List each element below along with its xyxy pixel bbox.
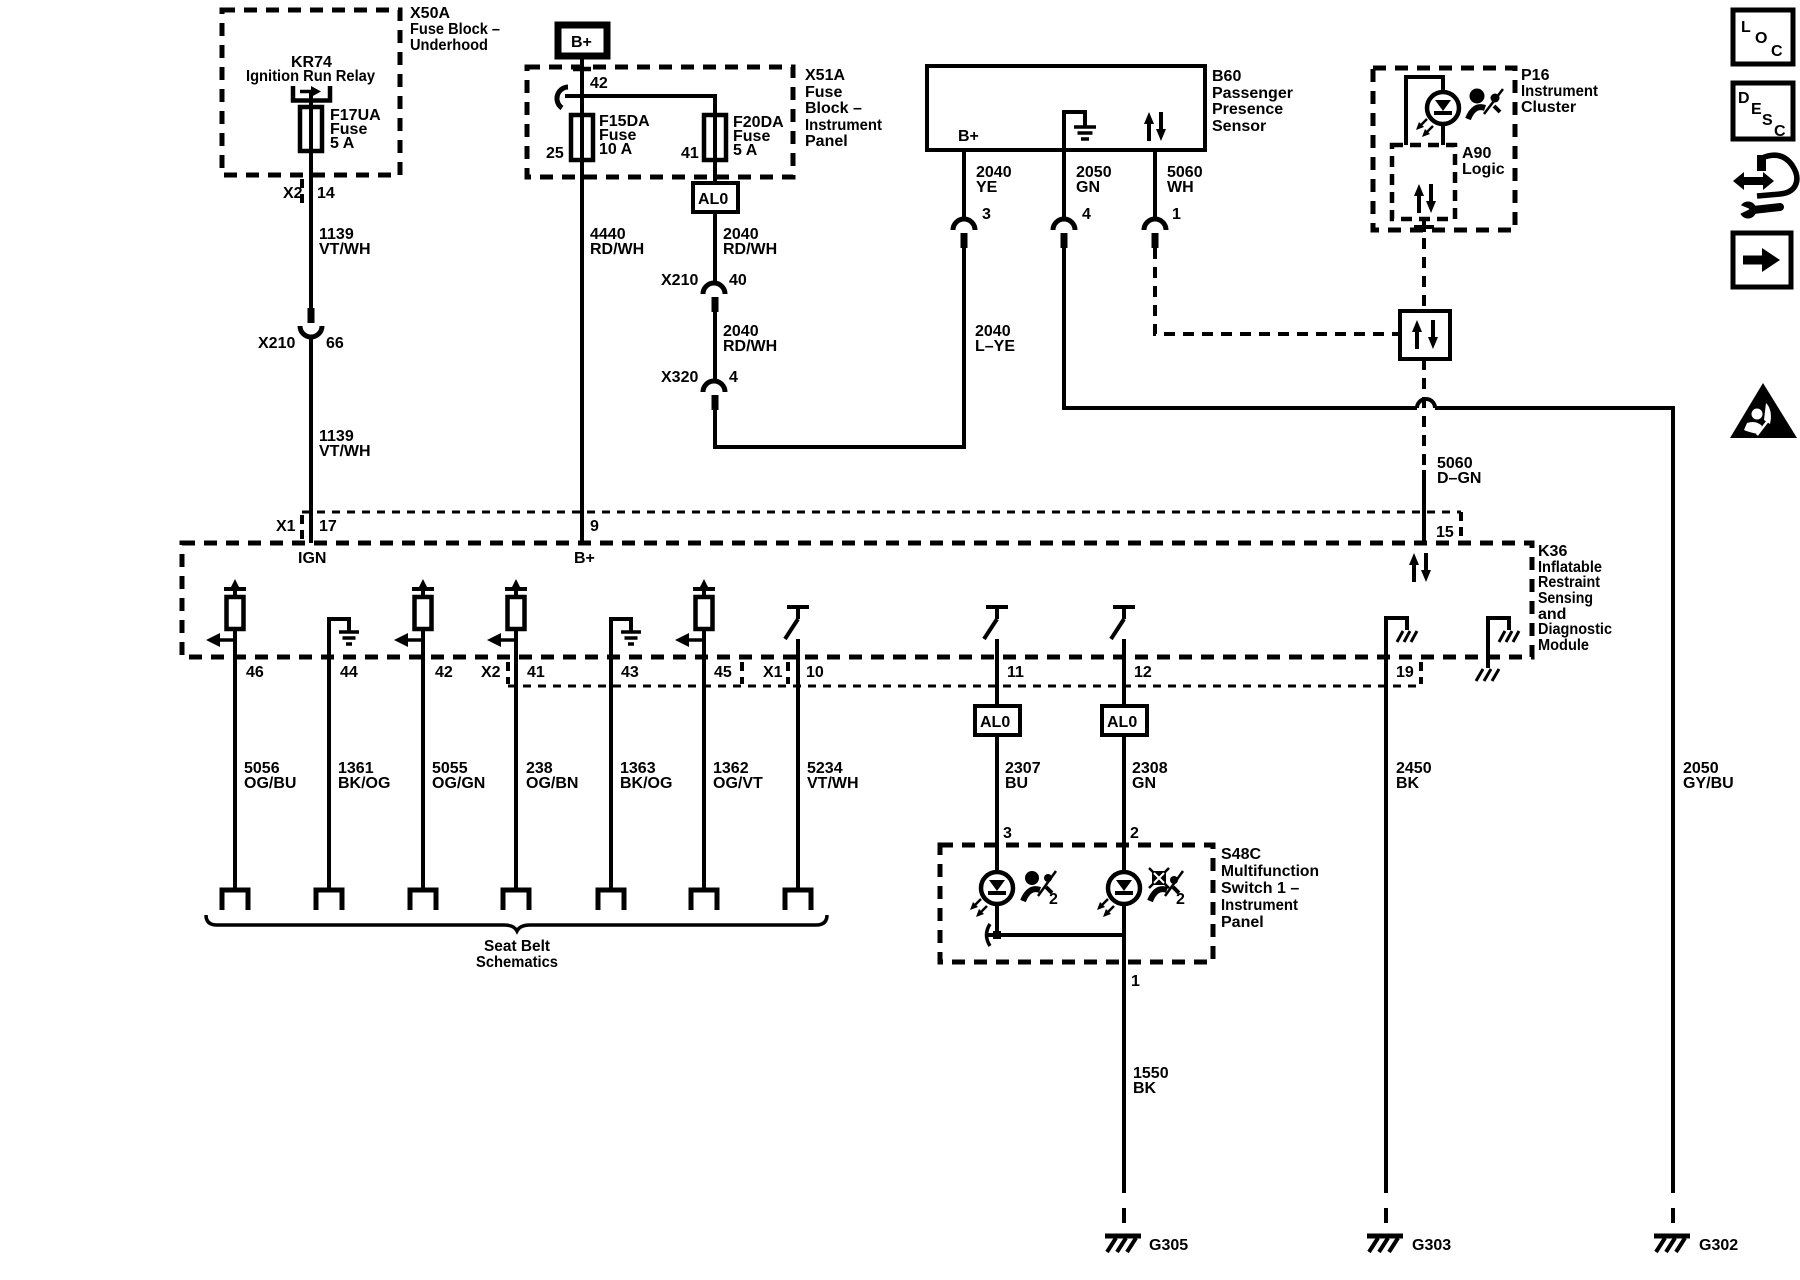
svg-text:3: 3	[982, 206, 991, 223]
label 2308 GN	[1132, 760, 1168, 792]
connector X1 top dashed line	[302, 511, 1461, 514]
svg-text:Sensing: Sensing	[1538, 590, 1593, 607]
label F15DA Fuse 10 A	[599, 113, 650, 158]
label pin 2 S48C	[1130, 825, 1139, 842]
label X1 17 top	[276, 518, 337, 535]
label F20DA Fuse 5 A	[733, 114, 784, 159]
svg-text:10: 10	[806, 664, 824, 681]
svg-text:Switch 1 –: Switch 1 –	[1221, 880, 1299, 897]
label B+ internal	[958, 128, 979, 145]
wire F20DA to AL0	[713, 160, 717, 183]
svg-text:12: 12	[1134, 664, 1152, 681]
wire 2307 BU	[995, 735, 999, 872]
splice AL0 wire 2308	[1102, 706, 1147, 735]
label 1362 OG/VT	[713, 760, 763, 792]
label wire 1139 VT/WH lower	[319, 428, 371, 460]
svg-text:BK/OG: BK/OG	[620, 775, 672, 792]
svg-text:X50A: X50A	[410, 5, 450, 22]
fuse F17UA	[300, 107, 322, 151]
svg-text:P16: P16	[1521, 67, 1550, 84]
pin stub below A90	[1414, 219, 1434, 232]
svg-text:G302: G302	[1699, 1237, 1738, 1254]
label B60 Passenger Presence Sensor	[1212, 68, 1293, 135]
svg-text:K36: K36	[1538, 543, 1567, 560]
wire 5055 OG/GN	[421, 657, 425, 888]
svg-text:IGN: IGN	[298, 550, 326, 567]
ground G302	[1654, 1236, 1690, 1252]
svg-text:D–GN: D–GN	[1437, 470, 1481, 487]
switch output K36 pin 10	[785, 607, 809, 657]
svg-text:Sensor: Sensor	[1212, 118, 1266, 135]
svg-text:4: 4	[729, 369, 738, 386]
logic module A90 box	[1392, 145, 1455, 219]
label pin 1	[1172, 206, 1181, 223]
switch common bus S48C	[987, 924, 1125, 946]
wire X320 to B60 pin 3	[715, 246, 964, 447]
wire pin42 down to F15DA	[580, 96, 584, 115]
label S48C Multifunction Switch 1 - Instrument Panel	[1221, 846, 1319, 931]
svg-text:GN: GN	[1132, 775, 1156, 792]
svg-text:OG/BU: OG/BU	[244, 775, 296, 792]
svg-text:17: 17	[319, 518, 337, 535]
terminator pin 46 wire	[222, 890, 248, 910]
icon LOC box	[1733, 10, 1793, 64]
svg-text:11: 11	[1007, 664, 1024, 681]
fuse F20DA	[704, 115, 726, 160]
svg-text:10 A: 10 A	[599, 141, 633, 158]
svg-text:41: 41	[527, 664, 545, 681]
fuse block X50A box	[222, 10, 400, 175]
label 2050 GY/BU	[1683, 760, 1734, 792]
svg-text:RD/WH: RD/WH	[590, 241, 644, 258]
svg-text:B+: B+	[958, 128, 979, 145]
svg-text:A90: A90	[1462, 145, 1491, 162]
label X210 40	[661, 272, 747, 289]
label B+ pin9	[574, 550, 595, 567]
ground output K36 pin 44	[329, 619, 359, 657]
svg-text:Panel: Panel	[1221, 914, 1264, 931]
wire 5056 OG/BU	[233, 657, 237, 888]
svg-text:X1: X1	[276, 518, 296, 535]
label pin row 46 44 42	[246, 664, 453, 681]
driver output K36 pin 41	[487, 579, 527, 657]
svg-text:9: 9	[590, 518, 599, 535]
ground G303	[1367, 1236, 1403, 1252]
sensor B60 box	[927, 66, 1205, 150]
svg-text:5 A: 5 A	[330, 135, 355, 152]
fuse block X51A box	[527, 67, 793, 177]
svg-text:3: 3	[1003, 825, 1012, 842]
label X1 10 11 12	[763, 664, 1152, 681]
connector X1 bottom tick mid	[740, 662, 744, 684]
label X320 4	[661, 369, 738, 386]
svg-text:Fuse: Fuse	[805, 84, 842, 101]
wire B60 pin 3 stub	[962, 150, 966, 219]
connector X2 bottom tick	[506, 662, 510, 684]
label F17UA Fuse 5 A	[330, 107, 381, 152]
svg-text:14: 14	[317, 185, 335, 202]
wire B60 pin 4 stub	[1062, 150, 1066, 219]
wire dashed A90 to serial data box	[1422, 238, 1426, 311]
connector X1 bottom tick at 10	[786, 662, 790, 684]
label 5060 WH	[1167, 164, 1203, 196]
label 1361 BK/OG	[338, 760, 390, 792]
connector B60 pin 3	[953, 219, 975, 248]
svg-text:42: 42	[435, 664, 453, 681]
svg-text:B+: B+	[574, 550, 595, 567]
wire 5234 VT/WH	[796, 657, 800, 888]
wire B60 pin 1 stub	[1153, 150, 1157, 219]
connector X210 pin 66	[300, 308, 322, 337]
label 2307 BU	[1005, 760, 1041, 792]
indicator LED S48C right	[1097, 872, 1140, 917]
label 5060 D-GN	[1437, 455, 1481, 487]
wire KR74 fuse output	[309, 151, 313, 308]
power feed B+ box	[558, 25, 607, 56]
label pin 42	[590, 75, 608, 92]
svg-text:X210: X210	[661, 272, 698, 289]
label 2040 YE	[976, 164, 1012, 196]
wire 238 OG/BN	[514, 657, 518, 888]
label Seat Belt Schematics	[476, 938, 558, 971]
icon child seat warning triangle	[1730, 383, 1797, 438]
instrument cluster P16 box	[1373, 68, 1515, 230]
terminator pin 44 wire	[316, 890, 342, 910]
label X50A Fuse Block - Underhood	[410, 5, 500, 54]
connector X2 pin 14 tick	[300, 179, 304, 205]
switch S48C box	[940, 845, 1213, 962]
terminator pin 42 wire	[410, 890, 436, 910]
wire 5060 to K36 pin 15	[1422, 470, 1426, 543]
label pin 9	[590, 518, 599, 535]
svg-text:2: 2	[1176, 891, 1185, 908]
svg-text:BK/OG: BK/OG	[338, 775, 390, 792]
svg-text:5 A: 5 A	[733, 142, 758, 159]
icon forward arrow box	[1733, 233, 1791, 287]
label wire 2040 L-YE	[975, 323, 1015, 355]
svg-text:X2: X2	[283, 185, 303, 202]
svg-text:45: 45	[714, 664, 732, 681]
label X210 66	[258, 335, 344, 352]
splice AL0 wire 2307	[975, 706, 1020, 735]
svg-text:Underhood: Underhood	[410, 37, 488, 54]
connector X320 pin 4	[703, 381, 725, 410]
label X51A Fuse Block - Instrument Panel	[805, 67, 883, 150]
svg-text:25: 25	[546, 145, 564, 162]
svg-text:L–YE: L–YE	[975, 338, 1015, 355]
wire 1361 BK/OG	[327, 657, 331, 888]
label A90 Logic	[1462, 145, 1505, 178]
wire 5060 WH dashed from pin 1	[1155, 248, 1400, 334]
label wire 2040 RD/WH upper	[723, 226, 777, 258]
wire hop over serial data	[1417, 399, 1435, 408]
label pin 3	[982, 206, 991, 223]
splice AL0	[693, 183, 738, 212]
svg-text:19: 19	[1396, 664, 1414, 681]
driver output K36 pin 46	[206, 579, 246, 657]
svg-text:1: 1	[1131, 973, 1140, 990]
terminator pin 10 wire	[785, 890, 811, 910]
wire K36 pin 12 to AL0	[1122, 657, 1126, 706]
svg-text:Schematics: Schematics	[476, 954, 558, 971]
svg-text:X210: X210	[258, 335, 295, 352]
airbag icon S48C left	[1023, 871, 1058, 908]
data arrows internal B60	[1144, 112, 1166, 141]
brace seat belt schematics	[206, 915, 827, 931]
ground output K36 pin 43	[611, 619, 641, 657]
svg-text:GN: GN	[1076, 179, 1100, 196]
label IGN	[298, 550, 326, 567]
wire K36 pin 11 to AL0	[995, 657, 999, 706]
connector X1 tick right pin15	[1459, 512, 1463, 541]
svg-text:O: O	[1755, 30, 1767, 47]
svg-text:S48C: S48C	[1221, 846, 1261, 863]
label 41	[681, 145, 699, 162]
fuse F15DA	[571, 115, 593, 160]
wire LED1 to junction	[995, 904, 999, 935]
ground G305	[1105, 1236, 1141, 1252]
label X2 41 43 45	[481, 664, 732, 681]
svg-text:B60: B60	[1212, 68, 1241, 85]
svg-text:Ignition Run Relay: Ignition Run Relay	[246, 68, 375, 85]
label G305	[1149, 1237, 1188, 1254]
data arrows K36 pin 15	[1409, 553, 1431, 582]
svg-text:OG/BN: OG/BN	[526, 775, 578, 792]
wire X210 to X320	[713, 312, 717, 381]
wire 2450 BK pin 19 to G303	[1384, 657, 1388, 1231]
svg-text:AL0: AL0	[698, 191, 728, 208]
svg-text:S: S	[1762, 112, 1773, 129]
airbag icon P16	[1468, 89, 1503, 120]
label 2050 GN	[1076, 164, 1112, 196]
connector B60 pin 1	[1144, 219, 1166, 248]
label pin 4	[1082, 206, 1091, 223]
svg-text:Cluster: Cluster	[1521, 99, 1576, 116]
svg-text:RD/WH: RD/WH	[723, 338, 777, 355]
wire 1550 BK	[1122, 962, 1126, 1231]
wire 1139 VT/WH lower	[309, 337, 313, 543]
wire F15DA to K36 pin 9	[580, 160, 584, 543]
chassis ground K36 internal right	[1476, 618, 1519, 681]
terminator pin 41 wire	[503, 890, 529, 910]
ground symbol internal B60	[1064, 112, 1096, 150]
connector tick after 19	[1419, 662, 1423, 684]
connector B60 pin 4	[1053, 219, 1075, 248]
svg-text:X1: X1	[763, 664, 783, 681]
svg-text:43: 43	[621, 664, 639, 681]
svg-text:1: 1	[1172, 206, 1181, 223]
svg-text:Instrument: Instrument	[805, 117, 883, 134]
svg-text:BU: BU	[1005, 775, 1028, 792]
svg-text:BK: BK	[1396, 775, 1420, 792]
module K36 box	[182, 543, 1532, 657]
label wire 1139 VT/WH upper	[319, 226, 371, 258]
svg-text:Module: Module	[1538, 637, 1589, 654]
label 25	[546, 145, 564, 162]
wire LED2 to junction	[1122, 904, 1126, 962]
relay KR74 contact symbol	[293, 86, 330, 107]
label X2 14	[283, 185, 335, 202]
svg-text:RD/WH: RD/WH	[723, 241, 777, 258]
svg-text:VT/WH: VT/WH	[807, 775, 859, 792]
data arrows internal A90	[1414, 184, 1436, 213]
svg-text:42: 42	[590, 75, 608, 92]
svg-text:VT/WH: VT/WH	[319, 443, 371, 460]
label KR74 Ignition Run Relay	[246, 54, 375, 85]
icon DESC box	[1733, 83, 1793, 140]
wire 2050 GN from pin4 to far right	[1064, 248, 1417, 408]
wire dashed serial data down	[1422, 359, 1426, 470]
svg-text:Passenger: Passenger	[1212, 85, 1293, 102]
svg-text:Logic: Logic	[1462, 161, 1505, 178]
svg-text:X2: X2	[481, 664, 501, 681]
svg-text:E: E	[1751, 101, 1762, 118]
wire 1363 BK/OG	[609, 657, 613, 888]
label K36 Inflatable Restraint Sensing and Diagnostic Module	[1538, 543, 1612, 654]
driver output K36 pin 42	[394, 579, 434, 657]
label 238 OG/BN	[526, 760, 578, 792]
label 5055 OG/GN	[432, 760, 485, 792]
svg-text:40: 40	[729, 272, 747, 289]
wire B+ into X51A pin 42	[573, 59, 591, 96]
switch output K36 pin 11	[984, 607, 1008, 657]
indicator LED P16	[1416, 92, 1459, 137]
svg-text:BK: BK	[1133, 1080, 1157, 1097]
svg-text:C: C	[1774, 123, 1786, 140]
label wire 2040 RD/WH lower	[723, 323, 777, 355]
svg-text:X51A: X51A	[805, 67, 845, 84]
svg-text:44: 44	[340, 664, 358, 681]
svg-text:Fuse Block –: Fuse Block –	[410, 21, 500, 38]
svg-text:Block –: Block –	[805, 100, 862, 117]
wire pin42 to F20DA	[565, 96, 715, 115]
svg-text:X320: X320	[661, 369, 698, 386]
indicator LED S48C left	[970, 872, 1013, 917]
wire 1362 OG/VT	[702, 657, 706, 888]
svg-text:Panel: Panel	[805, 133, 848, 150]
svg-text:OG/GN: OG/GN	[432, 775, 485, 792]
label G303	[1412, 1237, 1451, 1254]
svg-text:Seat Belt: Seat Belt	[484, 938, 551, 955]
svg-text:Restraint: Restraint	[1538, 574, 1601, 591]
label wire 4440 RD/WH	[590, 226, 644, 258]
svg-text:OG/VT: OG/VT	[713, 775, 763, 792]
driver output K36 pin 45	[675, 579, 715, 657]
label pin 1 S48C	[1131, 973, 1140, 990]
svg-text:66: 66	[326, 335, 344, 352]
icon wiring repair arrows and wrench	[1733, 155, 1797, 219]
serial data box	[1400, 311, 1450, 359]
wire 2050 continuing right and down	[1435, 408, 1673, 1178]
terminator pin 43 wire	[598, 890, 624, 910]
svg-text:Instrument: Instrument	[1221, 897, 1299, 914]
chassis ground K36 pin 19	[1386, 618, 1417, 657]
svg-text:46: 46	[246, 664, 264, 681]
label 1363 BK/OG	[620, 760, 672, 792]
connector X1 tick left	[300, 515, 304, 541]
airbag icon S48C right crossed	[1149, 868, 1185, 908]
label P16 Instrument Cluster	[1521, 67, 1599, 116]
svg-text:Diagnostic: Diagnostic	[1538, 621, 1612, 638]
wire crescent tap symbol	[557, 87, 568, 108]
wire LED loop in P16	[1406, 77, 1443, 145]
svg-text:2: 2	[1130, 825, 1139, 842]
label pin 3 S48C	[1003, 825, 1012, 842]
svg-text:41: 41	[681, 145, 699, 162]
svg-text:AL0: AL0	[980, 714, 1010, 731]
switch output K36 pin 12	[1111, 607, 1135, 657]
svg-text:Multifunction: Multifunction	[1221, 863, 1319, 880]
svg-text:G303: G303	[1412, 1237, 1451, 1254]
label 1550 BK	[1133, 1065, 1169, 1097]
wire 2050 dashed to G302	[1671, 1178, 1675, 1231]
wire AL0 to X210	[713, 212, 717, 283]
wire 2308 GN	[1122, 735, 1126, 872]
label G302	[1699, 1237, 1738, 1254]
svg-text:15: 15	[1436, 524, 1454, 541]
svg-text:VT/WH: VT/WH	[319, 241, 371, 258]
connector X210 pin 40	[703, 283, 725, 312]
svg-text:D: D	[1738, 90, 1750, 107]
label 5234 VT/WH	[807, 760, 859, 792]
svg-text:G305: G305	[1149, 1237, 1188, 1254]
svg-text:L: L	[1741, 19, 1751, 36]
svg-text:YE: YE	[976, 179, 998, 196]
label 5056 OG/BU	[244, 760, 296, 792]
svg-text:4: 4	[1082, 206, 1091, 223]
svg-text:WH: WH	[1167, 179, 1194, 196]
connector bottom dashed line	[508, 685, 1421, 688]
terminator pin 45 wire	[691, 890, 717, 910]
svg-text:GY/BU: GY/BU	[1683, 775, 1734, 792]
label pin 15	[1436, 524, 1454, 541]
svg-text:2: 2	[1049, 891, 1058, 908]
svg-text:AL0: AL0	[1107, 714, 1137, 731]
svg-text:Presence: Presence	[1212, 101, 1283, 118]
svg-text:C: C	[1771, 43, 1783, 60]
svg-text:Instrument: Instrument	[1521, 83, 1599, 100]
label pin 19	[1396, 664, 1414, 681]
label 2450 BK	[1396, 760, 1432, 792]
svg-text:B+: B+	[571, 34, 592, 51]
